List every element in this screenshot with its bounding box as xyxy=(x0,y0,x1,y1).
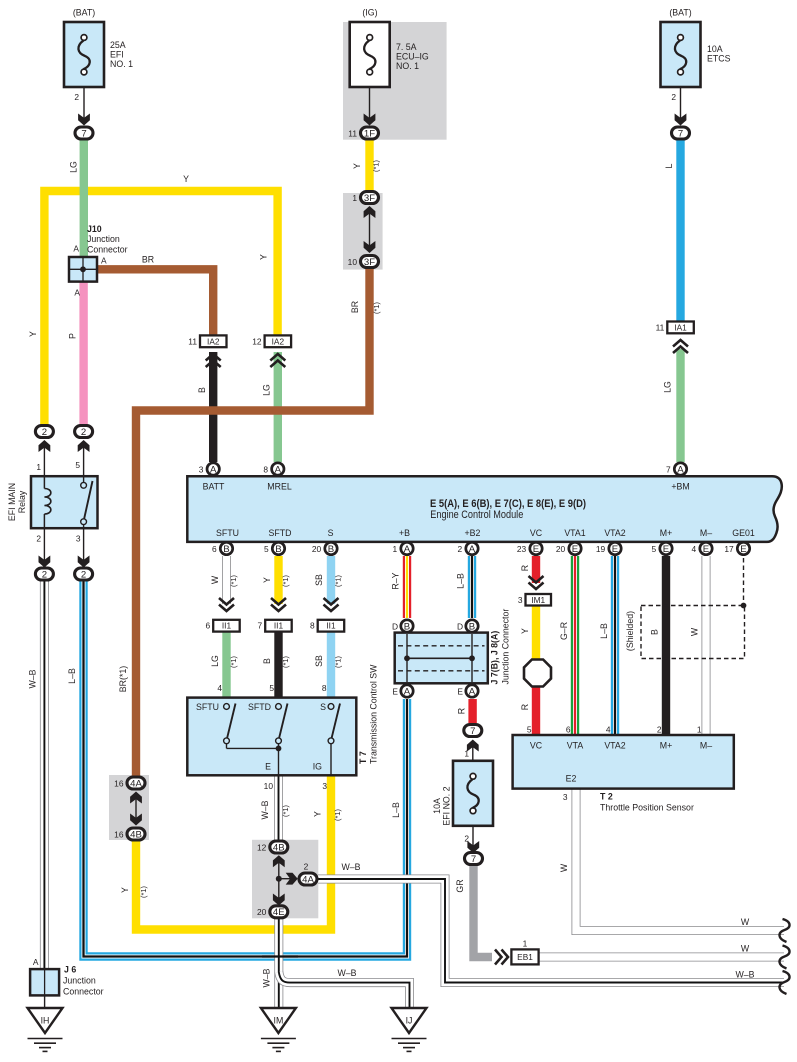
svg-text:A: A xyxy=(210,464,217,475)
connector 7 below fuse EFI NO.1 xyxy=(75,127,93,139)
svg-text:S: S xyxy=(320,702,326,712)
arrow into lower connector 2 left xyxy=(43,528,45,562)
ECM pin 8 A MREL xyxy=(272,463,284,475)
connector II1 pin 7 xyxy=(265,620,292,632)
wire Y from IM1 to noise filter xyxy=(532,605,540,660)
svg-text:4: 4 xyxy=(217,683,222,693)
svg-text:7. 5A: 7. 5A xyxy=(396,42,417,52)
connector 3F pin 1 xyxy=(361,192,379,204)
svg-text:E: E xyxy=(663,544,669,555)
svg-text:B: B xyxy=(404,621,410,632)
svg-text:E: E xyxy=(457,687,463,697)
connector 2 on L-B wire xyxy=(75,568,93,580)
svg-text:M–: M– xyxy=(700,528,712,538)
svg-text:5: 5 xyxy=(75,460,80,470)
svg-text:2: 2 xyxy=(304,862,309,872)
svg-text:(BAT): (BAT) xyxy=(669,8,691,18)
chevrons above II1 pin 6 xyxy=(219,605,234,612)
svg-text:B: B xyxy=(262,658,272,664)
svg-text:7: 7 xyxy=(678,128,683,139)
svg-text:W: W xyxy=(690,627,700,636)
svg-text:11: 11 xyxy=(348,128,357,138)
ECM pin 19 E VTA2 xyxy=(609,542,621,554)
wire from J6 to ground IH xyxy=(44,995,46,1008)
svg-text:LG: LG xyxy=(262,384,272,396)
svg-text:EFI MAIN: EFI MAIN xyxy=(7,483,17,521)
chevrons below IA1 xyxy=(673,340,688,347)
connector II1 pin 6 xyxy=(213,620,240,632)
svg-text:E: E xyxy=(533,544,539,555)
connector 2 on W-B wire xyxy=(35,568,53,580)
arrow into connector 1F xyxy=(364,114,376,126)
wire LG(*1) from II1 pin 6 to T7 SFTU xyxy=(222,631,230,698)
svg-text:R: R xyxy=(520,565,530,571)
svg-text:T 7: T 7 xyxy=(358,751,368,764)
svg-text:4B: 4B xyxy=(130,829,142,840)
wire L blue from fuse ETCS to IA1 pin 11 xyxy=(676,139,684,322)
svg-text:Junction: Junction xyxy=(63,976,96,986)
svg-text:3F: 3F xyxy=(364,257,375,268)
svg-text:LG: LG xyxy=(69,161,79,173)
svg-text:R: R xyxy=(520,704,530,710)
svg-text:5: 5 xyxy=(269,683,274,693)
wire L-B from ECM VTA2 to T2 VTA2 pin 4 xyxy=(611,556,619,736)
wire B(*1) from II1 pin 7 to T7 SFTD xyxy=(274,631,282,698)
relay switch xyxy=(83,477,85,482)
svg-text:E2: E2 xyxy=(566,774,577,784)
svg-text:D: D xyxy=(392,622,398,632)
svg-text:7: 7 xyxy=(470,726,475,737)
svg-text:R–Y: R–Y xyxy=(391,572,401,589)
fuse 10A ETCS xyxy=(661,22,701,87)
svg-text:VTA: VTA xyxy=(567,741,584,751)
svg-text:E: E xyxy=(392,687,398,697)
connector 7 below fuse ETCS xyxy=(672,127,690,139)
svg-text:L–B: L–B xyxy=(599,623,609,639)
ground IM xyxy=(261,1008,296,1033)
svg-text:E: E xyxy=(265,762,271,772)
fuse 7.5A ECU-IG NO.1 xyxy=(350,22,390,87)
svg-text:GE01: GE01 xyxy=(732,528,755,538)
svg-text:M+: M+ xyxy=(660,528,672,538)
svg-text:W–B: W–B xyxy=(341,862,360,872)
connector 2 on Y wire xyxy=(35,426,53,438)
ECM pin 23 E VC xyxy=(530,542,542,554)
J7 pin D B connector left xyxy=(401,620,413,632)
svg-text:A: A xyxy=(404,686,411,697)
chevrons into EB1 xyxy=(502,950,509,965)
ECM pin 5 B SFTD xyxy=(272,542,284,554)
junction connector J7/J8 box xyxy=(395,633,488,684)
svg-text:2: 2 xyxy=(458,544,463,554)
svg-text:2: 2 xyxy=(74,92,79,102)
wire W-B(*1) from T7 E pin 10 to 4B pin 12 xyxy=(274,776,283,841)
svg-text:3F: 3F xyxy=(364,193,375,204)
svg-text:E: E xyxy=(703,544,709,555)
svg-text:A: A xyxy=(33,957,39,967)
svg-text:SB: SB xyxy=(314,574,324,586)
svg-text:(*1): (*1) xyxy=(281,656,290,668)
connector II1 pin 8 xyxy=(318,620,345,632)
svg-text:A: A xyxy=(275,464,282,475)
svg-text:2: 2 xyxy=(81,569,86,580)
arrow down into 4E xyxy=(278,879,280,901)
wire W from EB1 to right edge xyxy=(539,953,784,962)
svg-text:(*1): (*1) xyxy=(334,575,343,587)
ground IJ xyxy=(392,1008,427,1033)
ground IH xyxy=(28,1008,63,1033)
svg-text:L: L xyxy=(664,163,674,168)
svg-text:J10: J10 xyxy=(87,224,102,234)
wire LG from IA1 to ECM +BM xyxy=(676,349,684,462)
svg-text:6: 6 xyxy=(566,725,571,735)
svg-text:T 2: T 2 xyxy=(600,792,613,802)
svg-text:3: 3 xyxy=(76,534,81,544)
J7/J8 internal bus xyxy=(398,645,485,647)
junction connector J6 xyxy=(30,969,59,995)
wire W(*1) from ECM SFTU to II1 pin 6 xyxy=(222,556,231,604)
svg-text:W: W xyxy=(741,917,750,927)
wire L-B from EFI relay pin 3 across to J8 pin E xyxy=(84,580,408,957)
ECM pin 2 A +B2 xyxy=(466,542,478,554)
svg-text:Throttle Position Sensor: Throttle Position Sensor xyxy=(600,803,694,813)
svg-text:BR: BR xyxy=(350,301,360,313)
chevrons below IA2 pin 11 xyxy=(206,354,221,361)
wire GR from connector 7 to EB1 xyxy=(474,864,493,957)
wire W-B from 4E pin 20 to ground IM xyxy=(274,918,283,1008)
svg-text:Connector: Connector xyxy=(63,987,104,997)
svg-text:R: R xyxy=(457,708,467,714)
svg-text:7: 7 xyxy=(666,464,671,474)
svg-text:10A: 10A xyxy=(432,798,442,814)
svg-text:10: 10 xyxy=(264,781,274,791)
svg-text:Y: Y xyxy=(120,887,130,893)
svg-text:2: 2 xyxy=(657,725,662,735)
svg-text:1F: 1F xyxy=(364,128,375,139)
svg-text:VC: VC xyxy=(530,741,543,751)
double arrow between 3F connectors xyxy=(369,208,371,251)
svg-text:Y: Y xyxy=(352,163,362,169)
svg-text:W–B: W–B xyxy=(28,669,38,688)
svg-text:S: S xyxy=(328,528,334,538)
svg-text:A: A xyxy=(677,464,684,475)
svg-text:3: 3 xyxy=(518,595,523,605)
wire B from ECM M+ to T2 pin 2 xyxy=(662,556,670,736)
chevrons above II1 pin 7 xyxy=(271,605,286,612)
svg-text:VC: VC xyxy=(530,528,543,538)
svg-text:B: B xyxy=(197,387,207,393)
arrow up into 4B xyxy=(278,860,280,879)
svg-text:+BM: +BM xyxy=(671,482,689,492)
connector 4B pin 12 xyxy=(270,841,288,853)
wire Y from 1F to 3F xyxy=(365,139,373,192)
svg-text:IA2: IA2 xyxy=(207,336,220,346)
svg-text:2: 2 xyxy=(36,534,41,544)
connector 3F pin 10 xyxy=(361,256,379,268)
svg-text:(*1): (*1) xyxy=(372,160,381,172)
svg-text:+B2: +B2 xyxy=(465,528,481,538)
svg-text:(IG): (IG) xyxy=(362,8,377,18)
svg-text:W: W xyxy=(559,863,569,872)
svg-text:E: E xyxy=(572,544,578,555)
wire BR(*1) from 3F pin 10 down-left to 4A pin 16 xyxy=(136,268,370,777)
svg-text:A: A xyxy=(73,244,79,254)
svg-text:5: 5 xyxy=(527,725,532,735)
wire W-B branch to ground IJ xyxy=(279,972,410,1008)
svg-text:ECU–IG: ECU–IG xyxy=(396,52,429,62)
double arrow between 4A and 4B xyxy=(135,793,137,824)
svg-text:2: 2 xyxy=(671,92,676,102)
wire Y(*1) from 4B pin 16 across to T7 IG pin 3 xyxy=(136,776,331,930)
svg-text:Y: Y xyxy=(520,628,530,634)
shielded cable dashed box xyxy=(641,606,745,659)
connector EB1 pin 1 xyxy=(511,949,538,964)
connector IA2 pin 12 xyxy=(265,335,292,347)
ECM pin 1 A +B xyxy=(401,542,413,554)
relay coil xyxy=(43,477,45,489)
ECM pin 5 E M+ xyxy=(660,542,672,554)
arrow up into connector 2 left xyxy=(43,444,45,476)
svg-text:(*1): (*1) xyxy=(281,805,290,817)
arrow up into connector 2 right xyxy=(83,444,85,476)
svg-text:M–: M– xyxy=(700,741,712,751)
wire W break symbol at right edge xyxy=(779,919,789,942)
svg-text:7: 7 xyxy=(258,621,263,631)
ECM pin 20 E VTA1 xyxy=(569,542,581,554)
svg-text:II1: II1 xyxy=(326,621,336,631)
svg-text:MREL: MREL xyxy=(267,482,292,492)
svg-text:BATT: BATT xyxy=(203,482,225,492)
J8 pin E A connector left xyxy=(401,685,413,697)
svg-text:SB: SB xyxy=(314,655,324,667)
J8 pin E A connector right xyxy=(466,685,478,697)
chevrons above II1 pin 8 xyxy=(324,605,339,612)
svg-text:5: 5 xyxy=(652,544,657,554)
transmission control switch T7 box xyxy=(187,698,356,776)
svg-text:E: E xyxy=(612,544,618,555)
wire Y yellow from connector 2 up across to IA2 pin 12 xyxy=(44,191,277,426)
svg-text:1: 1 xyxy=(523,939,528,949)
wire LG from IA2 pin 12 to ECM MREL xyxy=(274,352,282,462)
wire W from ECM M- to T2 pin 1 xyxy=(702,556,711,736)
svg-text:(Shielded): (Shielded) xyxy=(625,611,635,651)
wire stem from fuse EFI NO.1 xyxy=(83,88,85,120)
svg-text:(*1): (*1) xyxy=(139,886,148,898)
throttle position sensor T2 box xyxy=(513,735,734,789)
wire LG from fuse EFI NO.1 to J10 xyxy=(80,139,88,258)
svg-text:A: A xyxy=(404,544,411,555)
svg-text:1: 1 xyxy=(697,725,702,735)
svg-text:4A: 4A xyxy=(130,778,142,789)
svg-text:G–R: G–R xyxy=(559,622,569,640)
svg-text:B: B xyxy=(650,629,660,635)
svg-text:12: 12 xyxy=(257,842,267,852)
svg-text:EFI: EFI xyxy=(110,50,124,60)
ECM pin 20 B S xyxy=(325,542,337,554)
J7 pin D B connector right xyxy=(466,620,478,632)
svg-text:3: 3 xyxy=(563,792,568,802)
chevrons below IA2 pin 12 xyxy=(270,354,285,361)
wire W-B from 4A pin 2 to right edge xyxy=(318,879,784,983)
svg-text:W–B: W–B xyxy=(262,968,272,987)
svg-text:L–B: L–B xyxy=(391,802,401,818)
connector 4E pin 20 xyxy=(270,906,288,918)
ECM pin 3 A BATT xyxy=(207,463,219,475)
svg-text:7: 7 xyxy=(471,854,476,865)
svg-text:Y: Y xyxy=(259,254,269,260)
svg-text:BR(*1): BR(*1) xyxy=(118,666,128,692)
EFI main relay box xyxy=(31,476,98,528)
svg-text:VTA2: VTA2 xyxy=(604,528,625,538)
svg-text:20: 20 xyxy=(312,544,322,554)
svg-text:+B: +B xyxy=(399,528,410,538)
svg-text:17: 17 xyxy=(724,544,734,554)
svg-text:1: 1 xyxy=(36,462,41,472)
svg-text:2: 2 xyxy=(42,569,47,580)
svg-text:20: 20 xyxy=(257,907,267,917)
svg-text:EB1: EB1 xyxy=(517,952,533,962)
svg-text:Y: Y xyxy=(262,577,272,583)
wire R from noise filter to T2 VC pin 5 xyxy=(532,682,540,736)
svg-text:(*1): (*1) xyxy=(333,809,342,821)
shielded cable dashed line from GE01 xyxy=(743,558,745,606)
fuse 25A EFI NO.1 xyxy=(64,22,104,87)
svg-text:SFTD: SFTD xyxy=(269,528,292,538)
gray shading box behind 3F connectors xyxy=(343,193,383,270)
svg-text:IA1: IA1 xyxy=(674,322,687,332)
svg-text:IA2: IA2 xyxy=(272,336,285,346)
svg-text:P: P xyxy=(68,333,78,339)
svg-text:VTA1: VTA1 xyxy=(564,528,585,538)
connector 7 above fuse EFI NO.2 xyxy=(464,725,482,737)
svg-text:4E: 4E xyxy=(273,907,285,918)
wire W from T2 E2 pin 3 to right edge xyxy=(576,788,784,931)
gray shading box behind ECU-IG fuse xyxy=(343,22,447,140)
svg-text:SFTU: SFTU xyxy=(216,528,239,538)
svg-text:B: B xyxy=(223,544,229,555)
svg-text:12: 12 xyxy=(252,336,262,346)
wire stem from fuse ECU-IG xyxy=(369,88,371,120)
svg-text:W–B: W–B xyxy=(260,800,270,819)
svg-text:4B: 4B xyxy=(273,842,285,853)
wire W break symbol at right edge lower xyxy=(779,946,789,969)
svg-text:W: W xyxy=(741,944,750,954)
svg-text:4A: 4A xyxy=(302,874,314,885)
svg-text:W–B: W–B xyxy=(337,968,356,978)
svg-text:L–B: L–B xyxy=(67,668,77,684)
wire W-B from EFI relay pin 2 to J6 xyxy=(40,580,49,970)
svg-text:8: 8 xyxy=(310,621,315,631)
svg-text:IH: IH xyxy=(41,1016,50,1026)
svg-text:5: 5 xyxy=(264,544,269,554)
wire stem from fuse ETCS xyxy=(680,88,682,120)
wire B from IA2 pin 11 to ECM BATT xyxy=(209,352,217,462)
arrow into connector 7 below fuse EFI NO.2 xyxy=(472,826,474,848)
wire L-B from ECM +B2 to J7 pin D xyxy=(468,556,476,618)
svg-text:6: 6 xyxy=(212,544,217,554)
svg-text:1: 1 xyxy=(464,749,469,759)
svg-text:VTA2: VTA2 xyxy=(604,741,625,751)
svg-text:A: A xyxy=(469,686,476,697)
svg-text:II1: II1 xyxy=(222,621,232,631)
svg-text:NO. 1: NO. 1 xyxy=(396,61,419,71)
gray shading box behind 4B/4A/4E connectors xyxy=(252,840,318,919)
wire R from J8 pin E to connector 7 xyxy=(468,699,476,723)
svg-text:Y: Y xyxy=(313,811,323,817)
engine control module ECM box xyxy=(187,476,782,542)
wire R from ECM VC to IM1 xyxy=(532,556,540,583)
svg-text:(*1): (*1) xyxy=(229,575,238,587)
ECM pin 7 A +BM xyxy=(674,463,686,475)
svg-text:B: B xyxy=(275,544,281,555)
svg-text:IM: IM xyxy=(274,1016,284,1026)
svg-text:II1: II1 xyxy=(274,621,284,631)
svg-text:4: 4 xyxy=(606,725,611,735)
svg-text:J 7(B), J 8(A): J 7(B), J 8(A) xyxy=(490,631,500,685)
svg-text:25A: 25A xyxy=(110,40,126,50)
wire W-B break symbol at right edge xyxy=(779,971,789,994)
arrow into lower connector 2 right xyxy=(83,528,85,562)
arrow right into 4A xyxy=(279,878,293,880)
svg-text:Junction Connector: Junction Connector xyxy=(501,609,511,685)
svg-text:8: 8 xyxy=(322,683,327,693)
connector 7 below fuse EFI NO.2 xyxy=(465,853,483,865)
svg-text:IJ: IJ xyxy=(406,1016,413,1026)
svg-text:3: 3 xyxy=(322,781,327,791)
gray shading box behind 4A/4B connectors xyxy=(109,775,149,840)
arrow up into connector 7 above fuse EFI NO.2 xyxy=(472,744,474,760)
svg-text:23: 23 xyxy=(517,544,527,554)
svg-text:EFI NO. 2: EFI NO. 2 xyxy=(442,786,452,825)
wire R-Y from ECM +B to J7 pin D xyxy=(403,556,411,618)
arrow into connector 7 right xyxy=(675,114,687,126)
svg-text:16: 16 xyxy=(114,829,124,839)
wire Y(*1) from ECM SFTD to II1 pin 7 xyxy=(274,556,282,604)
svg-text:D: D xyxy=(457,622,463,632)
svg-text:Relay: Relay xyxy=(17,490,27,513)
svg-text:SFTD: SFTD xyxy=(248,702,271,712)
svg-text:16: 16 xyxy=(114,778,124,788)
svg-text:A: A xyxy=(469,544,476,555)
svg-text:1: 1 xyxy=(393,544,398,554)
svg-text:SFTU: SFTU xyxy=(196,702,219,712)
svg-text:7: 7 xyxy=(81,128,86,139)
ECM pin 6 B SFTU xyxy=(220,542,232,554)
svg-text:(*1): (*1) xyxy=(281,575,290,587)
ECM pin 4 E M- xyxy=(700,542,712,554)
svg-text:J 6: J 6 xyxy=(64,965,76,975)
svg-text:BR: BR xyxy=(142,255,154,265)
junction dot ground branch xyxy=(276,876,282,882)
svg-text:20: 20 xyxy=(556,544,566,554)
junction connector J10 xyxy=(69,257,97,282)
svg-text:2: 2 xyxy=(42,427,47,438)
connector 1F pin 11 xyxy=(361,127,379,139)
svg-text:A: A xyxy=(101,256,107,266)
svg-text:11: 11 xyxy=(188,336,197,346)
svg-text:B: B xyxy=(469,621,475,632)
svg-text:Y: Y xyxy=(183,174,189,184)
connector IA1 pin 11 xyxy=(667,322,694,334)
svg-text:Junction: Junction xyxy=(87,234,120,244)
svg-text:A: A xyxy=(74,288,80,298)
wire G-R from ECM VTA1 to T2 VTA pin 6 xyxy=(571,556,579,736)
chevrons above IM1 xyxy=(529,583,544,590)
svg-text:(*1): (*1) xyxy=(229,656,238,668)
svg-text:Connector: Connector xyxy=(87,245,128,255)
svg-text:1: 1 xyxy=(352,193,357,203)
svg-text:8: 8 xyxy=(263,464,268,474)
